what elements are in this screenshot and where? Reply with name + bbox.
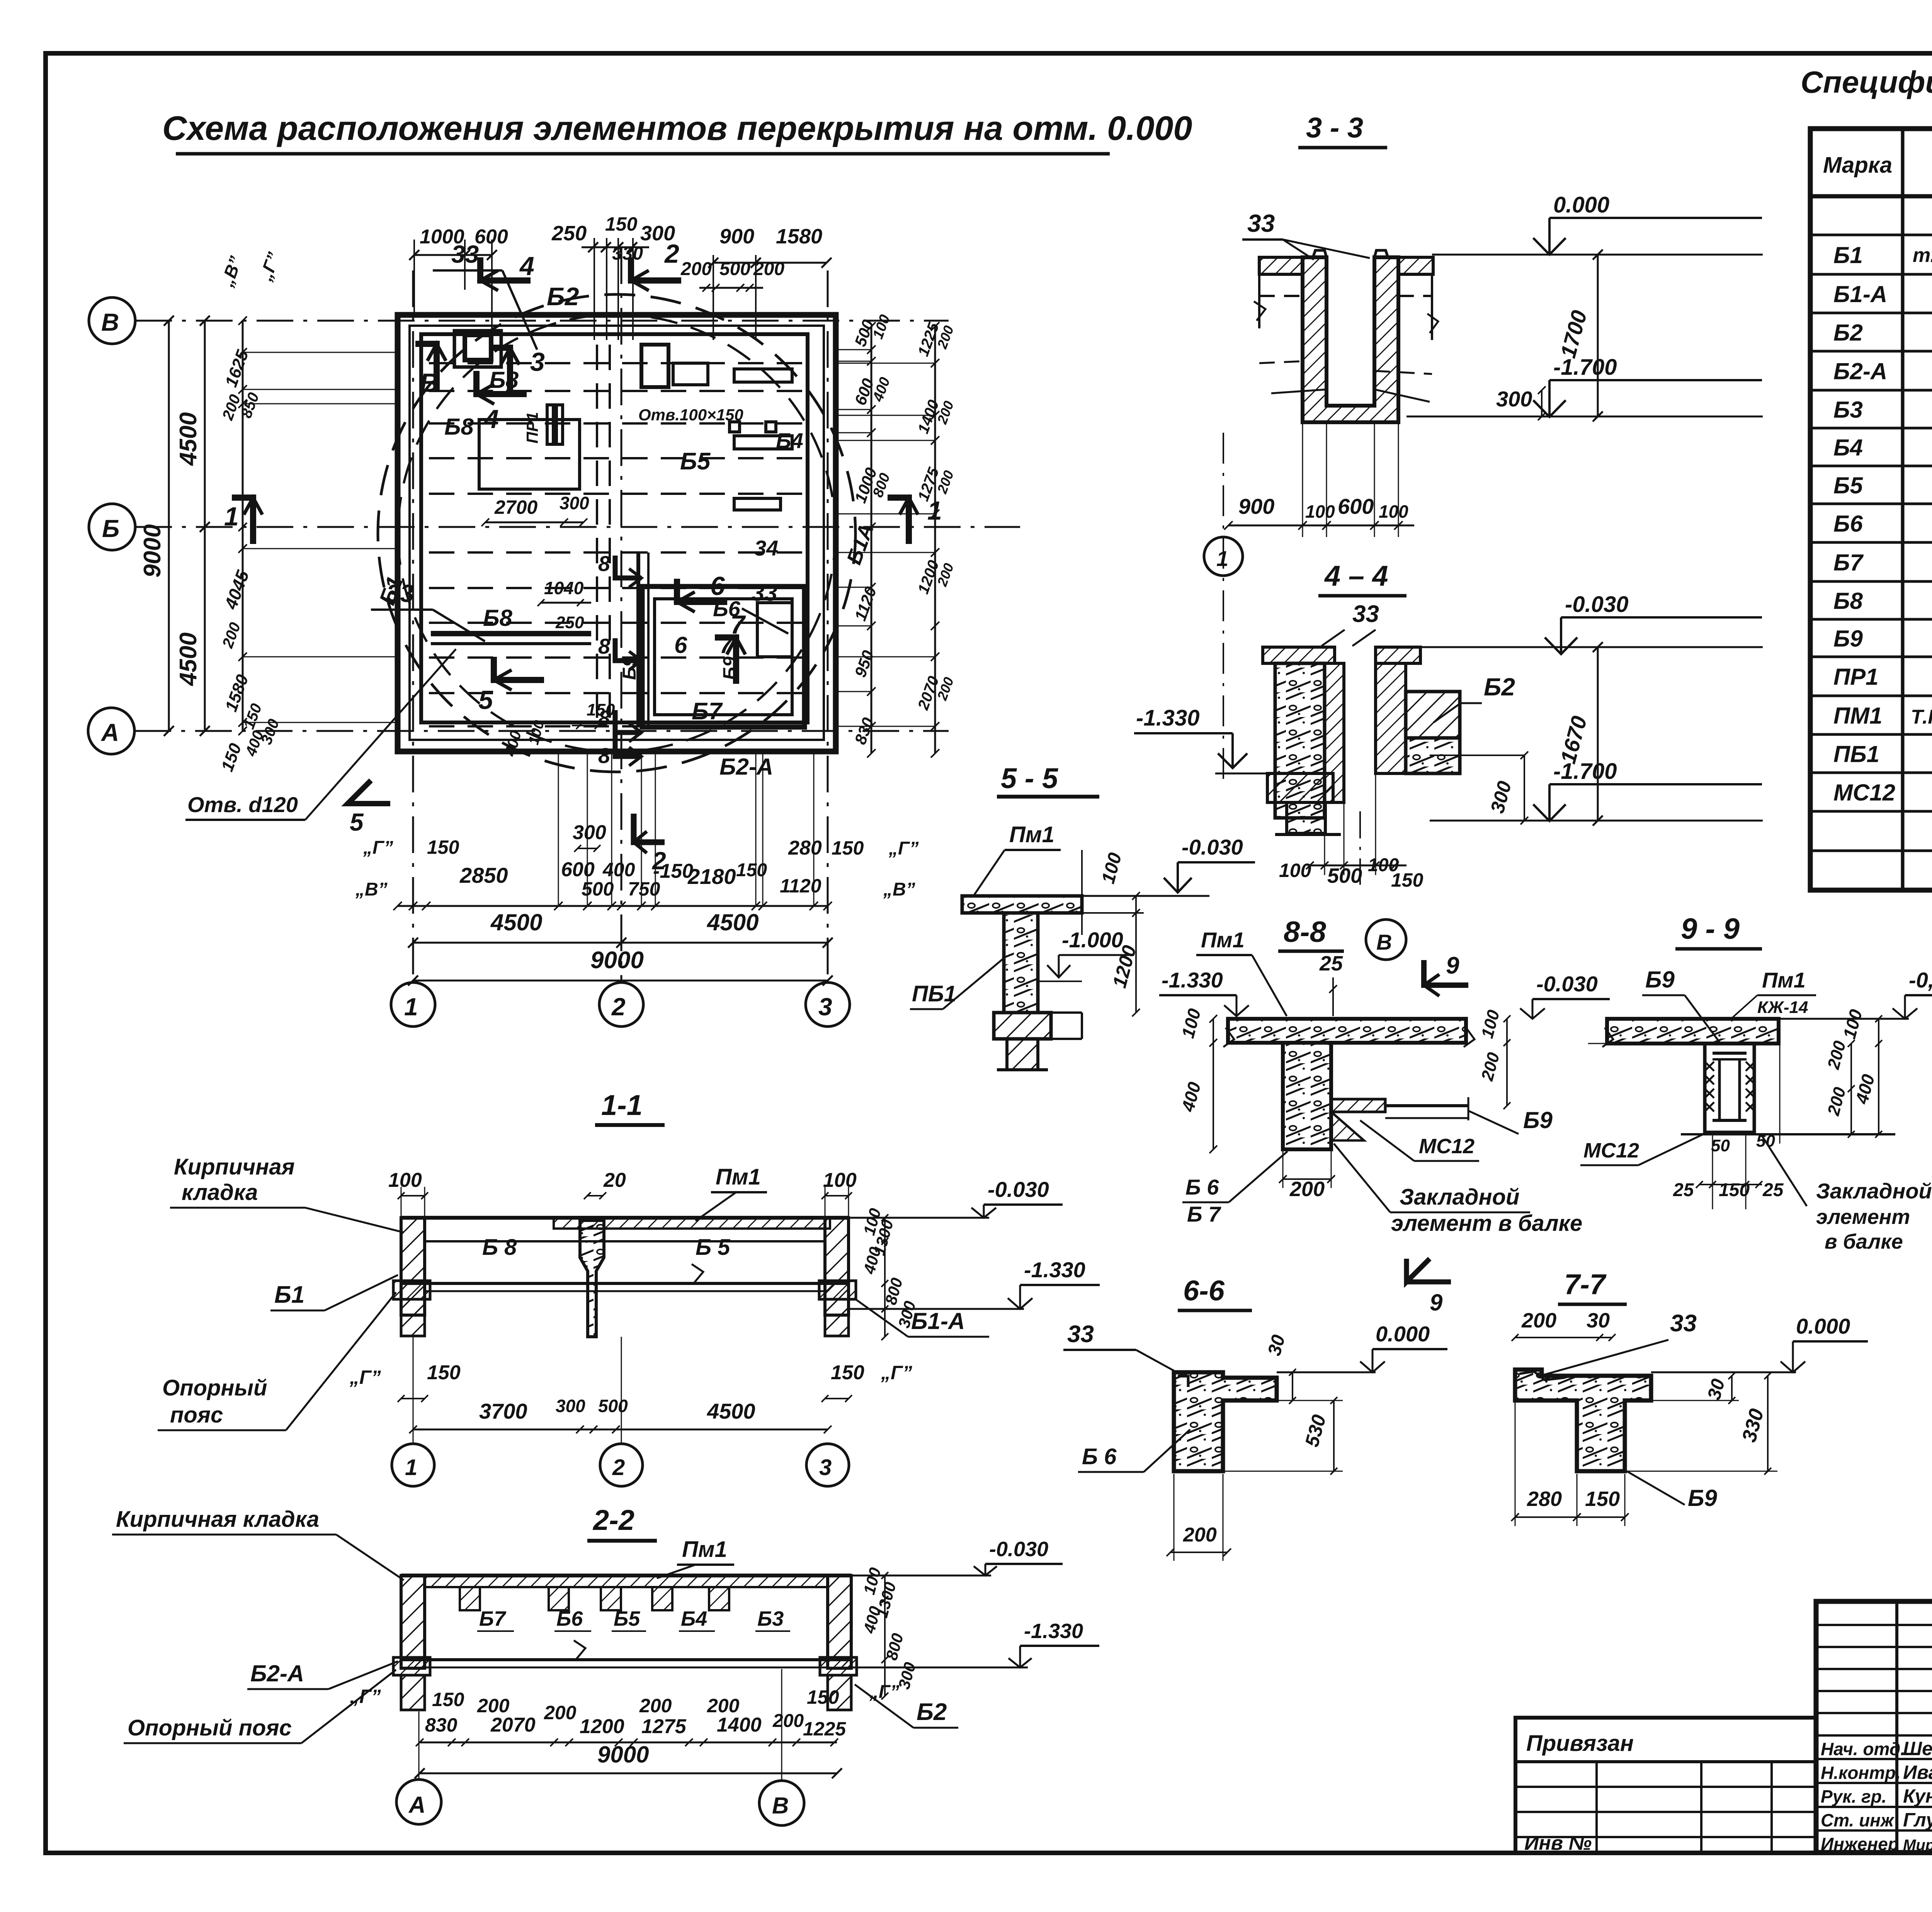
svg-text:200: 200 — [1521, 1309, 1556, 1332]
svg-text:Кирпичная: Кирпичная — [174, 1154, 295, 1179]
svg-text:8: 8 — [598, 706, 611, 730]
svg-text:Б3: Б3 — [757, 1607, 784, 1630]
svg-text:200: 200 — [639, 1695, 672, 1717]
svg-text:4500: 4500 — [175, 412, 202, 466]
beam Б8 lower-left thick line — [431, 631, 591, 636]
svg-text:Отв.100×150: Отв.100×150 — [638, 406, 743, 424]
right chain B (200/1400/1275/1200/2070) — [934, 326, 936, 753]
svg-text:30: 30 — [1587, 1309, 1610, 1332]
svg-text:В: В — [101, 308, 119, 336]
svg-text:Марка: Марка — [1823, 153, 1892, 178]
6-6 corner angle mark — [1178, 1376, 1188, 1387]
bottom extension lines up to plan — [558, 753, 559, 906]
svg-text:150: 150 — [605, 213, 638, 235]
spec table row data — [1833, 233, 1932, 806]
svg-text:8-8: 8-8 — [1284, 916, 1327, 948]
svg-text:500: 500 — [582, 878, 614, 900]
svg-text:2-2: 2-2 — [592, 1504, 634, 1536]
svg-text:200: 200 — [1289, 1178, 1325, 1201]
4-4 channel wall hatched — [1325, 663, 1344, 802]
right chain A (500/100/600/400/1040 etc) — [871, 326, 872, 753]
svg-text:-1.700: -1.700 — [1553, 759, 1617, 784]
1-1 center support — [580, 1220, 604, 1337]
marker 9 (between 6-6 and 7-7) — [1406, 1259, 1430, 1282]
svg-text:-1.330: -1.330 — [1024, 1258, 1085, 1282]
svg-text:2850: 2850 — [459, 863, 508, 887]
svg-text:150: 150 — [1719, 1180, 1750, 1200]
svg-text:3: 3 — [819, 1455, 832, 1480]
opening with curb top-left — [454, 331, 501, 367]
svg-text:Б7: Б7 — [1833, 550, 1864, 576]
svg-text:200: 200 — [477, 1695, 510, 1717]
svg-text:-1.000: -1.000 — [1062, 928, 1123, 952]
svg-text:6: 6 — [710, 571, 725, 601]
svg-text:МС12: МС12 — [1833, 780, 1895, 806]
svg-text:3: 3 — [818, 993, 832, 1021]
grid line 2 — [621, 247, 622, 982]
bottom chain 150|2850|600|500|400|750|150|2180|150|1120 — [398, 905, 828, 907]
title block outer — [1816, 1601, 1932, 1853]
9-9 dims 25 150 25 — [1699, 1184, 1762, 1185]
2-2 circles А В — [396, 1779, 441, 1824]
title block middle signature table — [1816, 1624, 1932, 1626]
svg-text:Б 5: Б 5 — [696, 1235, 730, 1260]
svg-text:8: 8 — [598, 634, 611, 658]
svg-text:200: 200 — [1183, 1524, 1217, 1546]
bottom dim 9000 — [413, 980, 828, 982]
svg-text:100: 100 — [388, 1169, 422, 1191]
svg-text:1275: 1275 — [641, 1715, 687, 1738]
grid circle 3 — [806, 982, 850, 1027]
svg-text:-0.030: -0.030 — [1536, 972, 1598, 996]
svg-text:1: 1 — [224, 502, 239, 531]
3-3 curb notches — [1313, 250, 1327, 257]
svg-text:900: 900 — [1238, 494, 1274, 518]
svg-text:Т.П.902-1-59-КЖ-14: Т.П.902-1-59-КЖ-14 — [1911, 706, 1932, 728]
4-4 concrete wall left — [1275, 663, 1325, 818]
8-8 embedded angle + МС12 — [1331, 1099, 1385, 1112]
beam Б8 outline (left middle) — [479, 420, 580, 489]
svg-text:-1.330: -1.330 — [1162, 968, 1223, 992]
svg-text:Пм1: Пм1 — [682, 1537, 727, 1562]
svg-text:Б5: Б5 — [680, 448, 711, 475]
svg-text:МС12: МС12 — [1419, 1135, 1475, 1158]
svg-text:1040: 1040 — [544, 578, 584, 598]
section marker В (arrow up small) — [415, 344, 437, 390]
svg-text:Б5: Б5 — [1833, 472, 1863, 498]
grid line В — [135, 320, 949, 322]
8-8 break marks — [1464, 1028, 1475, 1047]
beam lines (dashed) inside plan — [429, 345, 806, 726]
svg-text:Пм1: Пм1 — [1762, 968, 1806, 992]
svg-text:4500: 4500 — [707, 909, 759, 935]
section marker 4 (top) — [480, 257, 531, 280]
svg-text:4500: 4500 — [490, 909, 542, 935]
2-2 left pier — [401, 1575, 425, 1668]
6-6 L-shaped beam Б6 (concrete) — [1174, 1372, 1277, 1471]
grid circle В — [89, 297, 135, 344]
svg-text:280: 280 — [788, 837, 822, 859]
svg-text:200: 200 — [707, 1695, 740, 1717]
svg-text:500: 500 — [1327, 864, 1362, 887]
section marker 1 (left, arrow up) — [232, 498, 253, 544]
svg-text:-1.330: -1.330 — [1136, 705, 1199, 731]
svg-text:-1.330: -1.330 — [1024, 1620, 1083, 1643]
left small chain 1625/200/850/200/4045/200/1580/150 — [242, 321, 244, 731]
svg-text:А: А — [408, 1792, 425, 1818]
left dim 4500/4500 — [204, 321, 206, 731]
svg-text:1: 1 — [1216, 546, 1228, 571]
1-1 circles 1 2 3 — [392, 1444, 434, 1486]
svg-text:Ст. инж: Ст. инж — [1821, 1810, 1895, 1830]
3-3 vertical dim 1700 — [1597, 255, 1599, 416]
svg-text:Б8: Б8 — [1833, 588, 1863, 614]
svg-text:Б2: Б2 — [917, 1699, 947, 1725]
7-7 dims 280 150 — [1515, 1516, 1625, 1518]
svg-text:Мирошникова: Мирошникова — [1903, 1837, 1932, 1854]
4-4 top slab left (hatched) — [1263, 647, 1335, 663]
svg-text:2700: 2700 — [494, 496, 537, 518]
9-9 extension lines — [1779, 1019, 1781, 1144]
section marker 7 — [715, 637, 736, 684]
3-3 break marks — [1254, 301, 1265, 321]
svg-text:100: 100 — [823, 1169, 857, 1191]
5-5 slab (hatched) — [962, 896, 1082, 913]
svg-text:Б2: Б2 — [1484, 673, 1515, 701]
title block left stamp table (Привязан) — [1515, 1718, 1816, 1853]
svg-text:5: 5 — [350, 808, 364, 836]
svg-text:3: 3 — [530, 347, 545, 377]
5-5 lower column — [1007, 1039, 1038, 1070]
svg-text:Б3: Б3 — [1833, 397, 1863, 423]
grid circle А — [88, 708, 134, 754]
svg-text:1200: 1200 — [580, 1715, 624, 1738]
svg-text:Кунцевич: Кунцевич — [1903, 1785, 1932, 1807]
svg-text:200: 200 — [680, 259, 712, 279]
4-4 vertical dim 1670 — [1597, 647, 1599, 821]
1-1 slab Пм1 hatched — [554, 1218, 830, 1229]
grid line 1 — [412, 270, 414, 982]
svg-text:„Г”: „Г” — [349, 1366, 381, 1388]
8-8 slab (concrete hatched) — [1228, 1019, 1466, 1043]
bottom dim 4500|4500 — [413, 942, 828, 944]
svg-text:пояс: пояс — [170, 1402, 223, 1428]
svg-text:-0,030: -0,030 — [1909, 968, 1932, 992]
5-5 extension line right — [1081, 850, 1083, 935]
svg-text:Б: Б — [102, 515, 119, 542]
svg-text:25: 25 — [1762, 1180, 1784, 1200]
4-4 beam Б2 block — [1406, 692, 1460, 738]
6-6 dim 200 — [1170, 1552, 1227, 1553]
9-9 slab (concrete hatched) — [1607, 1019, 1779, 1044]
1-1 left pier ledge — [393, 1281, 430, 1299]
svg-text:9: 9 — [1446, 952, 1459, 979]
svg-text:„Г”: „Г” — [881, 1362, 912, 1383]
section marker 6 (mid) — [677, 579, 727, 602]
svg-text:Н.контр.: Н.контр. — [1821, 1763, 1901, 1783]
svg-text:7: 7 — [719, 632, 733, 658]
section marker 2 (top) — [631, 257, 681, 280]
svg-text:Б9: Б9 — [1645, 967, 1675, 993]
lintel ПР1 — [547, 405, 553, 444]
svg-text:„В”: „В” — [883, 879, 915, 900]
svg-text:Б2: Б2 — [1833, 320, 1863, 346]
svg-text:200: 200 — [544, 1702, 577, 1723]
svg-text:100: 100 — [1279, 860, 1311, 881]
svg-text:6: 6 — [674, 632, 687, 658]
svg-text:„Г”: „Г” — [349, 1686, 381, 1707]
3-3 hidden beam dashed lines — [1259, 295, 1303, 297]
svg-text:150: 150 — [1585, 1487, 1620, 1511]
svg-text:600: 600 — [1338, 494, 1374, 518]
left extension lines — [243, 352, 399, 353]
svg-text:34: 34 — [754, 536, 778, 560]
svg-text:МС12: МС12 — [1583, 1139, 1639, 1162]
svg-text:830: 830 — [425, 1714, 457, 1736]
svg-text:50: 50 — [1711, 1136, 1730, 1155]
svg-text:КЖ-14: КЖ-14 — [1757, 998, 1808, 1017]
spec table header text — [1823, 136, 1932, 192]
svg-text:150: 150 — [432, 1689, 464, 1710]
svg-text:33: 33 — [1067, 1321, 1094, 1348]
section marker 1 (right, arrow up) — [888, 498, 909, 544]
svg-text:2180: 2180 — [687, 864, 736, 889]
svg-text:4 – 4: 4 – 4 — [1324, 560, 1388, 592]
svg-text:300: 300 — [640, 222, 675, 245]
svg-text:Б2: Б2 — [547, 282, 579, 311]
svg-text:5 - 5: 5 - 5 — [1001, 762, 1059, 794]
grid circle 1 — [391, 982, 435, 1027]
svg-text:1120: 1120 — [780, 875, 821, 897]
1-1 right pier hatched — [825, 1218, 849, 1315]
interior dim 2700|300 — [485, 522, 583, 523]
svg-text:Иванов: Иванов — [1903, 1762, 1932, 1783]
svg-text:-0.030: -0.030 — [1565, 592, 1628, 617]
svg-text:Пм1: Пм1 — [1009, 822, 1054, 847]
svg-text:в балке: в балке — [1825, 1230, 1903, 1253]
svg-text:400: 400 — [602, 859, 635, 880]
svg-text:500: 500 — [719, 259, 750, 279]
svg-text:Б 6: Б 6 — [1185, 1175, 1219, 1199]
svg-text:9 - 9: 9 - 9 — [1681, 913, 1740, 945]
3-3 floor slope lines — [1271, 389, 1327, 393]
svg-text:„Г”: „Г” — [363, 838, 393, 858]
svg-text:Б5: Б5 — [614, 1607, 640, 1630]
svg-text:9000: 9000 — [597, 1742, 649, 1768]
svg-text:4500: 4500 — [707, 1399, 755, 1423]
svg-text:280: 280 — [1527, 1487, 1562, 1511]
svg-text:Закладной: Закладной — [1816, 1179, 1932, 1203]
svg-text:100: 100 — [1305, 501, 1335, 522]
svg-text:Опорный: Опорный — [162, 1375, 267, 1400]
4-4 axis dash-dot — [1359, 811, 1361, 885]
stair-step detail inside room — [757, 603, 792, 657]
svg-text:500: 500 — [598, 1396, 628, 1416]
grid circle 2 — [599, 982, 643, 1027]
1-1 break mark — [692, 1264, 703, 1283]
4-4 bottom dims 100|500|100|150 — [1310, 865, 1406, 867]
svg-text:-0.030: -0.030 — [1182, 835, 1243, 859]
svg-text:3 - 3: 3 - 3 — [1306, 112, 1363, 144]
svg-text:ПР1: ПР1 — [1833, 664, 1879, 690]
svg-text:Шейка: Шейка — [1903, 1738, 1932, 1759]
svg-text:4: 4 — [519, 252, 534, 281]
svg-text:Опорный пояс: Опорный пояс — [128, 1715, 292, 1740]
svg-text:Спецификация к схеме располож: Спецификация к схеме расположения элемен… — [1801, 65, 1932, 99]
grid line А — [134, 730, 949, 732]
svg-text:Б9: Б9 — [1688, 1485, 1717, 1511]
svg-text:А: А — [100, 719, 119, 746]
svg-text:25: 25 — [1319, 952, 1343, 975]
2-2 beam body — [401, 1574, 851, 1577]
svg-text:4500: 4500 — [175, 632, 202, 687]
2-2 right pier — [828, 1575, 851, 1668]
right extension lines — [837, 349, 871, 350]
section marker 5 (mid) — [494, 657, 544, 680]
svg-text:33: 33 — [752, 580, 777, 606]
svg-text:33: 33 — [1670, 1310, 1697, 1337]
grid circle Б — [89, 504, 135, 550]
svg-text:Б8: Б8 — [444, 414, 474, 440]
svg-text:200: 200 — [772, 1711, 804, 1731]
circular shaft wall (dashed circle) — [378, 294, 855, 772]
interior dim 1040|250 — [541, 602, 591, 604]
svg-text:Б1: Б1 — [1833, 242, 1863, 268]
svg-text:Б7: Б7 — [479, 1607, 507, 1630]
2-2 slab hatched full width — [425, 1575, 828, 1587]
svg-text:8: 8 — [598, 551, 611, 576]
svg-text:Нач. отд.: Нач. отд. — [1821, 1739, 1905, 1759]
svg-text:33: 33 — [386, 580, 414, 607]
4-4 lower ledge — [1267, 773, 1333, 802]
svg-text:Привязан: Привязан — [1526, 1731, 1634, 1756]
svg-text:600: 600 — [561, 858, 595, 881]
svg-text:Б1-А: Б1-А — [1833, 281, 1887, 307]
svg-text:В: В — [1376, 930, 1392, 954]
svg-text:-0.030: -0.030 — [989, 1538, 1048, 1561]
svg-text:-150: -150 — [653, 860, 693, 882]
svg-text:Б4: Б4 — [1833, 435, 1863, 461]
svg-text:150: 150 — [832, 837, 864, 859]
section markers 8 (three) — [615, 556, 641, 578]
svg-text:250: 250 — [551, 222, 587, 245]
svg-text:В: В — [772, 1793, 789, 1819]
room walls lower right (Б7) — [642, 586, 804, 727]
svg-text:Б9: Б9 — [1523, 1107, 1553, 1133]
4-4 top slab right (hatched) — [1376, 647, 1420, 663]
2-2 chain dim line — [420, 1742, 837, 1744]
svg-text:1225: 1225 — [803, 1718, 846, 1740]
9-9 break mark — [1602, 1028, 1613, 1047]
svg-text:Б1-А: Б1-А — [911, 1308, 965, 1334]
1-1 left pier hatched — [401, 1218, 425, 1315]
small beams right top — [734, 369, 792, 382]
3-3 bottom dims 900|100|600|100 — [1228, 525, 1414, 527]
top dim 900|1580 — [713, 262, 827, 264]
left dim 9000 (rotated) — [168, 321, 170, 731]
svg-text:элемент в балке: элемент в балке — [1391, 1211, 1582, 1236]
svg-text:5: 5 — [478, 685, 493, 715]
svg-text:„Г”: „Г” — [869, 1682, 899, 1702]
section marker 3 (arrow up) — [489, 348, 510, 394]
svg-text:150: 150 — [831, 1361, 864, 1384]
svg-text:Б 8: Б 8 — [482, 1235, 517, 1260]
svg-text:Отв. d120: Отв. d120 — [187, 792, 298, 817]
svg-text:0.000: 0.000 — [1376, 1322, 1430, 1346]
grid line Б — [135, 526, 1020, 528]
svg-text:250: 250 — [555, 613, 584, 632]
svg-text:Рук. гр.: Рук. гр. — [1821, 1786, 1887, 1807]
svg-text:7: 7 — [730, 610, 746, 639]
svg-text:2: 2 — [612, 1455, 625, 1480]
svg-text:1000: 1000 — [420, 226, 464, 248]
svg-text:33: 33 — [1352, 601, 1379, 627]
9-9 bottom line — [1681, 1133, 1895, 1135]
svg-text:300: 300 — [556, 1396, 585, 1416]
beam piece near Б3 — [673, 363, 708, 385]
svg-text:150: 150 — [807, 1686, 839, 1708]
svg-text:33: 33 — [1247, 209, 1275, 237]
8-8 beam Б9 (side view lines) — [1385, 1104, 1468, 1107]
svg-text:ПР1: ПР1 — [523, 412, 541, 444]
5-5 dim 1200 rotated — [1135, 913, 1137, 1013]
svg-text:200: 200 — [753, 259, 784, 279]
opening Отв.100x150 dots — [730, 422, 740, 432]
svg-text:9: 9 — [1430, 1290, 1443, 1315]
svg-text:9000: 9000 — [590, 947, 644, 974]
svg-text:Глуменко: Глуменко — [1903, 1809, 1932, 1831]
svg-text:Б6: Б6 — [1833, 511, 1863, 537]
svg-text:1: 1 — [404, 993, 418, 1021]
section marker 8 bottom — [615, 734, 641, 756]
top dim 250|150|300 + 330 — [582, 246, 649, 248]
5-5 belt block — [994, 1013, 1051, 1039]
svg-text:Б2-А: Б2-А — [719, 754, 773, 780]
section marker 2 (bottom) — [634, 814, 665, 842]
svg-text:„В”: „В” — [355, 879, 388, 900]
svg-text:ПМ1: ПМ1 — [1833, 703, 1883, 729]
svg-text:Б4: Б4 — [681, 1607, 707, 1630]
9-9 connector plates — [1713, 1052, 1747, 1055]
svg-text:150: 150 — [427, 1361, 461, 1384]
svg-text:100: 100 — [1379, 501, 1408, 522]
beam piece Б3 — [641, 345, 668, 387]
svg-text:Закладной: Закладной — [1400, 1185, 1519, 1210]
svg-text:кладка: кладка — [182, 1180, 258, 1205]
7-7 slab with left notch (concrete) — [1515, 1370, 1651, 1471]
svg-text:300: 300 — [573, 821, 606, 844]
svg-text:Б2-А: Б2-А — [250, 1660, 304, 1686]
2-2 beam stubs Б7..Б3 — [460, 1587, 729, 1610]
svg-text:Схема расположения элементов: Схема расположения элементов перекрытия … — [162, 109, 1192, 147]
svg-text:Б9: Б9 — [1833, 626, 1863, 652]
svg-text:2070: 2070 — [490, 1714, 536, 1736]
top dim 1000|600 — [414, 254, 492, 256]
svg-text:ПБ1: ПБ1 — [1833, 741, 1879, 767]
section marker 4 (mid) — [476, 371, 527, 394]
svg-text:3700: 3700 — [479, 1399, 527, 1423]
7-7 notch detail — [1519, 1372, 1565, 1380]
svg-text:Кирпичная кладка: Кирпичная кладка — [116, 1507, 319, 1532]
svg-text:Б4: Б4 — [776, 428, 803, 453]
specification table grid — [1810, 129, 1932, 890]
3-3 slab left (hatched) — [1259, 257, 1303, 274]
grid line 3 — [827, 270, 829, 982]
svg-text:600: 600 — [474, 226, 508, 248]
svg-text:0.000: 0.000 — [1553, 192, 1609, 218]
svg-text:В: В — [420, 368, 439, 398]
svg-text:4: 4 — [483, 404, 499, 434]
